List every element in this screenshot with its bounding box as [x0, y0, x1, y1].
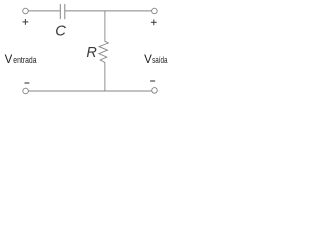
terminal: top-right: [152, 8, 158, 14]
minus (bottom-right): [150, 80, 155, 82]
svg-text:entrada: entrada: [13, 55, 36, 65]
resistor R (vertical branch with zigzag): [99, 11, 108, 91]
minus (bottom-left): [25, 82, 30, 84]
svg-text:V: V: [144, 54, 152, 66]
terminal: bottom-left: [23, 88, 29, 94]
svg-text:V: V: [5, 54, 13, 66]
svg-text:C: C: [55, 23, 66, 39]
wire: capacitor to top-right terminal: [65, 10, 151, 12]
plus (top-left): [23, 19, 29, 25]
wire: top-left terminal to capacitor: [28, 10, 60, 12]
terminal: bottom-right: [152, 88, 158, 94]
label V_entrada: [5, 54, 37, 66]
svg-text:R: R: [86, 45, 97, 61]
svg-text:saída: saída: [152, 55, 167, 65]
label V_saida: [144, 54, 167, 66]
terminal: top-left: [23, 8, 29, 14]
wire: bottom rail: [28, 90, 151, 92]
capacitor C: [60, 4, 65, 19]
plus (top-right): [151, 19, 157, 25]
